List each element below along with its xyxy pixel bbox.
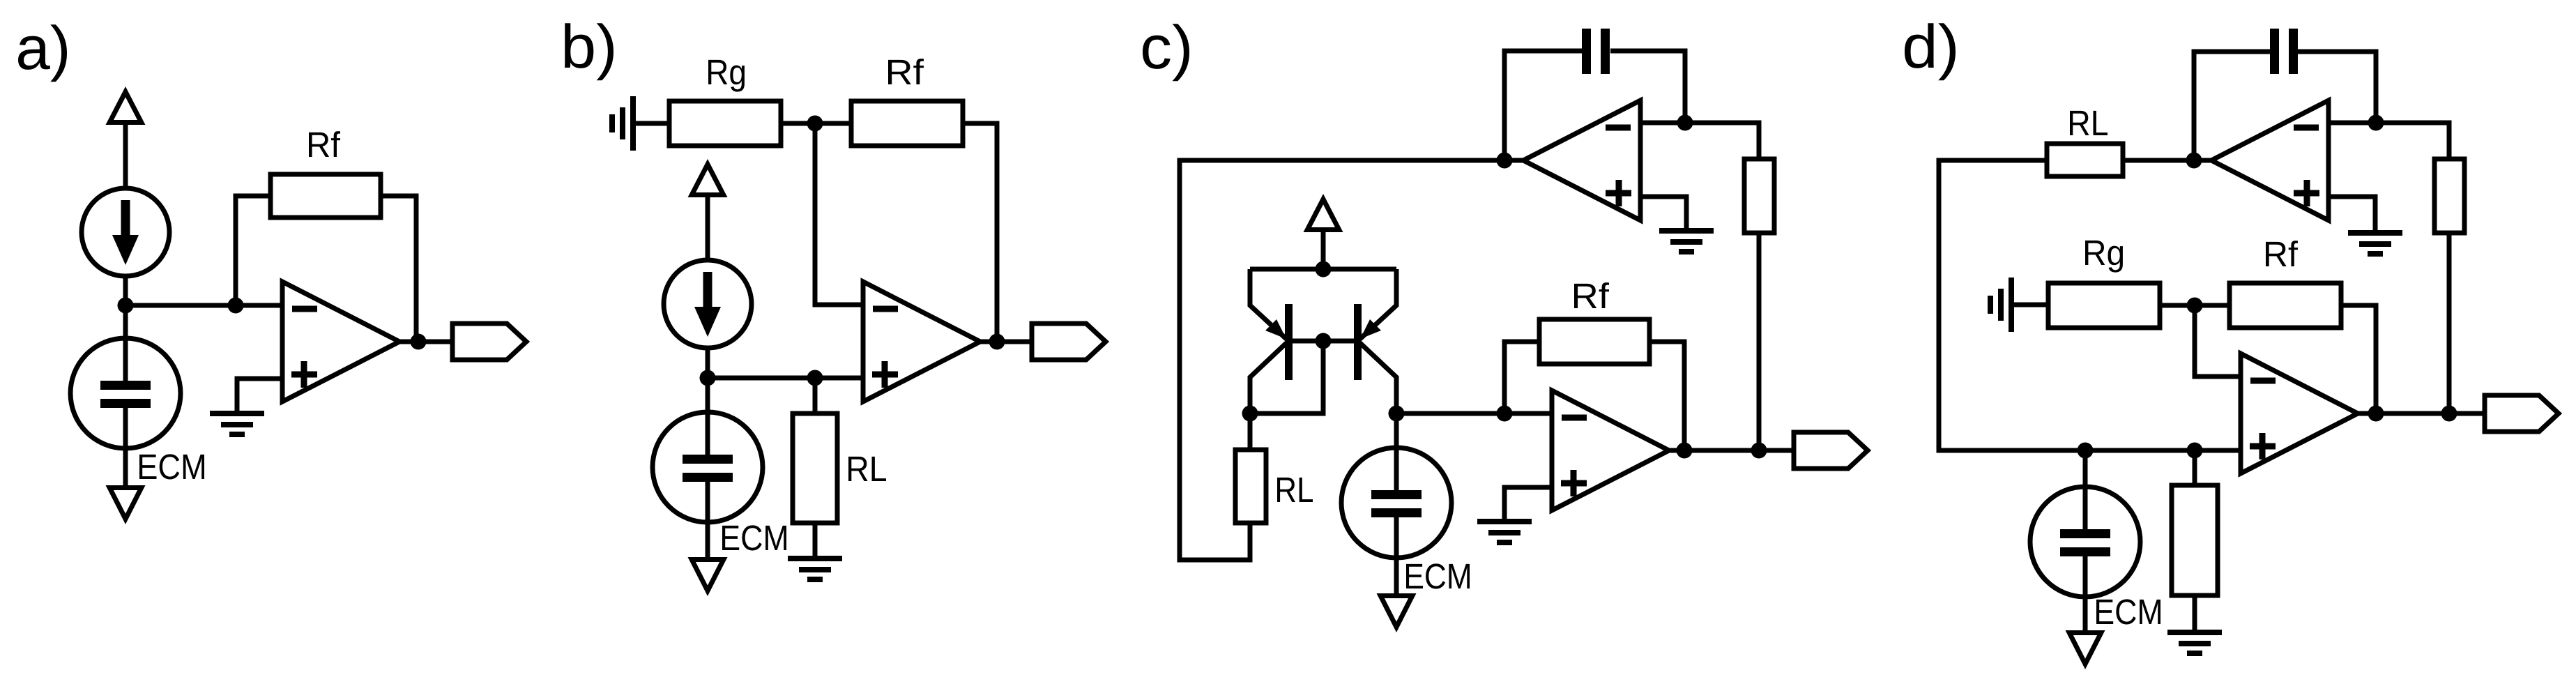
positive supply arrow (c) xyxy=(1304,194,1343,232)
electret capsule ECM (c) xyxy=(1341,448,1451,558)
resistor RL (b) xyxy=(793,413,837,523)
wire ground to non-inverting input (a) xyxy=(237,379,282,413)
node integrator input junction (d) xyxy=(2368,115,2384,131)
node integrator output (d) xyxy=(2186,153,2202,169)
resistor R2 vertical (d) xyxy=(2172,485,2218,595)
wire left collector lead (c) xyxy=(1250,343,1286,413)
ground at integrator non-inverting input (c) xyxy=(1659,231,1714,252)
wire ground to Rg (b) xyxy=(633,121,669,126)
label Rf (d) xyxy=(2266,241,2298,266)
resistor Rg (d) xyxy=(2048,283,2160,328)
wire input node to op-amp inverting input (a) xyxy=(125,303,282,308)
wire ECM to negative supply (c) xyxy=(1394,558,1399,593)
wire op-amp output (a) xyxy=(398,340,452,344)
node output junction (b) xyxy=(989,334,1005,350)
op-amp U1 (b) xyxy=(863,282,980,402)
wire supply to current source (a) xyxy=(123,125,128,188)
wire capacitor to inverting branch (c) xyxy=(1610,51,1685,123)
node output Rf junction (d) xyxy=(2368,406,2384,422)
wire Rf to output (d) xyxy=(2341,305,2376,413)
ground below RL (b) xyxy=(788,558,842,579)
label Rf (b) xyxy=(888,59,924,84)
wire junction to Rin (c) xyxy=(1685,123,1759,159)
wire capacitor to inverting branch (d) xyxy=(2298,52,2376,123)
label Rg (b) xyxy=(708,60,745,92)
wire left emitter lead (c) xyxy=(1250,269,1286,339)
wire non-inverting to ground (c) xyxy=(1640,197,1686,229)
resistor Rf (a) xyxy=(270,174,381,218)
node output R1 junction (c) xyxy=(1751,443,1767,459)
label ECM (d) xyxy=(2096,599,2160,624)
signal ground left of Rg (b) xyxy=(612,96,633,151)
wire junction to R1 (d) xyxy=(2376,123,2449,159)
output port (a) xyxy=(452,324,526,360)
wire supply to mirror rail (c) xyxy=(1321,232,1326,269)
node base junction (c) xyxy=(1316,333,1332,349)
electret capsule ECM (a) xyxy=(70,338,181,448)
wire ground to Rg (d) xyxy=(2011,303,2048,307)
op-amp U1 (d) xyxy=(2241,354,2358,473)
emitter arrow Q1 (c) xyxy=(1265,319,1286,339)
op-amp U1 (c) xyxy=(1552,390,1669,510)
wire feedback right branch (a) xyxy=(381,196,416,342)
wire base to left collector (c) xyxy=(1250,341,1323,413)
current source I1 (b) xyxy=(664,260,752,348)
wire R1 to output node (d) xyxy=(2447,233,2452,413)
wire Rg to Rf (b) xyxy=(781,121,851,126)
node output Rf junction (c) xyxy=(1677,443,1693,459)
negative supply arrow (b) xyxy=(688,557,728,596)
resistor RL (d) xyxy=(2047,144,2123,176)
wire node row to non-inverting input (b) xyxy=(708,376,863,381)
wire ground to non-inverting input (c) xyxy=(1504,487,1552,520)
wire ECM to negative supply (b) xyxy=(706,522,710,557)
current source I1 (a) xyxy=(82,188,169,276)
wire current source to node (b) xyxy=(706,348,710,378)
negative supply arrow (a) xyxy=(106,485,146,524)
wire node to ECM (c) xyxy=(1394,413,1399,455)
wire right emitter lead (c) xyxy=(1360,269,1396,339)
wire mirror output row (c) xyxy=(1396,411,1552,416)
wire base tie (c) xyxy=(1293,339,1354,344)
op-amp U2 integrator (d) xyxy=(2211,100,2329,220)
label ECM (b) xyxy=(722,525,786,550)
ground at non-inverting input (a) xyxy=(210,413,264,434)
panel label b) xyxy=(565,23,613,80)
node output junction (a) xyxy=(411,334,427,350)
node ECM junction (d) xyxy=(2078,443,2094,459)
wire Rf to output (b) xyxy=(963,123,997,342)
panel label a) xyxy=(18,24,67,82)
wire inverting input of integrator (d) xyxy=(2329,121,2376,126)
wire integrator output rail (c) xyxy=(1180,160,1525,560)
node ECM junction (b) xyxy=(700,370,716,386)
wire op-amp output (c) xyxy=(1668,448,1794,453)
wire junction to inverting input (d) xyxy=(2195,305,2241,377)
wire Rf left branch (c) xyxy=(1504,342,1539,413)
wire ECM to negative supply (d) xyxy=(2083,597,2088,630)
label RL (c) xyxy=(1277,478,1313,502)
electret capsule ECM (b) xyxy=(653,412,763,522)
transistor Q2 base bar (c) xyxy=(1354,304,1362,380)
wire RL around to non-inverting rail (d) xyxy=(1939,160,2241,450)
wire node to R2 (d) xyxy=(2193,450,2197,485)
wire R2 to ground (d) xyxy=(2193,595,2197,632)
wire supply to current source (b) xyxy=(706,197,710,260)
emitter arrow Q2 (c) xyxy=(1360,319,1381,339)
label Rg (d) xyxy=(2085,241,2123,273)
wire left collector to RL (c) xyxy=(1248,413,1253,450)
negative supply arrow (d) xyxy=(2066,630,2105,669)
positive supply arrow (panel a) xyxy=(106,86,146,125)
electret capsule ECM (d) xyxy=(2030,487,2140,597)
wire integrator feedback up (d) xyxy=(2194,52,2270,160)
output port (d) xyxy=(2485,395,2559,432)
wire R1 to output node (c) xyxy=(1757,233,1762,450)
wire RL to integrator output (d) xyxy=(2123,158,2213,163)
label Rf (a) xyxy=(309,131,340,157)
wire feedback left branch (a) xyxy=(236,196,270,305)
wire current source to input node (a) xyxy=(123,276,128,305)
wire integrator feedback up (c) xyxy=(1504,51,1582,160)
wire node to ECM (d) xyxy=(2083,450,2088,529)
panel label c) xyxy=(1143,24,1189,81)
resistor R1 vertical (c) xyxy=(1744,159,1774,233)
node right collector junction (c) xyxy=(1389,406,1405,422)
ground at non-inverting input (c) xyxy=(1477,522,1532,542)
wire right collector lead (c) xyxy=(1360,343,1396,413)
capacitor C1 integrator (d) xyxy=(2270,29,2298,74)
wire RL to ground (b) xyxy=(813,523,818,558)
op-amp U1 (a) xyxy=(282,282,399,402)
resistor Rg (b) xyxy=(669,101,781,146)
node RL junction (b) xyxy=(807,370,823,386)
transistor Q1 base bar (c) xyxy=(1285,304,1293,380)
label ECM (a) xyxy=(139,454,204,479)
ground below R2 (d) xyxy=(2167,632,2222,653)
op-amp U2 integrator (c) xyxy=(1523,100,1640,220)
wire Rf right branch (c) xyxy=(1649,342,1684,450)
node mirror rail (c) xyxy=(1316,261,1332,278)
node Rg-Rf junction (b) xyxy=(807,116,823,132)
wire node to ECM (b) xyxy=(706,378,710,455)
label RL (b) xyxy=(848,457,886,481)
node feedback tap (a) xyxy=(228,298,244,314)
wire ECM to negative supply (a) xyxy=(123,448,128,485)
output port (b) xyxy=(1032,324,1106,360)
resistor R1 vertical (d) xyxy=(2434,159,2464,233)
wire Rg to Rf (d) xyxy=(2160,303,2230,308)
label ECM (c) xyxy=(1406,563,1470,588)
node R2 junction (d) xyxy=(2187,443,2203,459)
wire op-amp output (d) xyxy=(2356,411,2485,416)
wire junction to inverting input (b) xyxy=(815,123,863,305)
node output R1 junction (d) xyxy=(2441,406,2457,422)
node left collector junction (c) xyxy=(1242,406,1258,422)
resistor Rf (d) xyxy=(2230,283,2341,328)
wire op-amp output (b) xyxy=(979,340,1032,344)
node integrator output (c) xyxy=(1497,153,1513,169)
resistor Rf (b) xyxy=(851,101,963,146)
label RL (d) xyxy=(2070,111,2108,135)
positive supply arrow (b) xyxy=(688,159,728,197)
signal ground left of Rg (d) xyxy=(1990,278,2011,332)
label Rf (c) xyxy=(1574,282,1609,308)
output port (c) xyxy=(1794,432,1868,469)
node integrator input junction (c) xyxy=(1677,115,1693,131)
node Rg-Rf junction (d) xyxy=(2187,298,2203,314)
capacitor C1 integrator (c) xyxy=(1582,29,1610,74)
wire mirror emitter rail (c) xyxy=(1250,267,1396,272)
resistor RL (c) xyxy=(1235,450,1266,523)
wire inverting input of integrator (c) xyxy=(1640,121,1685,126)
panel label d) xyxy=(1905,23,1956,80)
ground at integrator non-inverting input (d) xyxy=(2348,233,2402,254)
wire node to RL (b) xyxy=(813,378,818,413)
wire non-inverting to ground (d) xyxy=(2329,197,2375,231)
resistor Rf (c) xyxy=(1539,319,1649,364)
node input junction (a) xyxy=(118,298,134,314)
negative supply arrow (c) xyxy=(1377,593,1417,632)
node Rf tap (c) xyxy=(1497,406,1513,422)
wire input node to ECM (a) xyxy=(123,305,128,381)
